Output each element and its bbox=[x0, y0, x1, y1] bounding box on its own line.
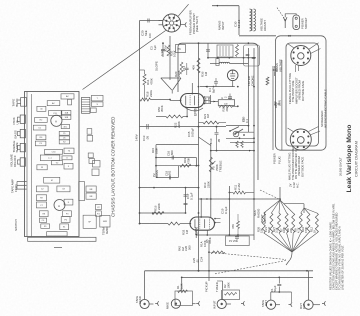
switch hub bbox=[233, 131, 239, 137]
resistor R16 bbox=[152, 212, 164, 215]
resistor R52 bbox=[166, 115, 183, 118]
vol box P1 bbox=[226, 236, 250, 246]
svg-text:A: A bbox=[58, 204, 60, 208]
svg-text:22K: 22K bbox=[289, 228, 293, 233]
layout part strip bbox=[68, 99, 72, 105]
junction dots rail bbox=[198, 42, 200, 44]
wires bank converge bbox=[264, 233, 292, 252]
wire psu top bus bbox=[208, 57, 256, 59]
layout part M7 bbox=[39, 211, 48, 217]
layout part can bbox=[100, 216, 110, 228]
svg-text:SOCKET: SOCKET bbox=[304, 17, 308, 29]
dashed leader bbox=[277, 8, 286, 21]
svg-text:UP: UP bbox=[15, 120, 19, 124]
layout part T4 bbox=[64, 148, 74, 154]
svg-text:HEAD: HEAD bbox=[15, 98, 19, 107]
capacitor C7 bbox=[206, 50, 210, 51]
layout part tag1 bbox=[91, 95, 103, 101]
wire fan rail bbox=[279, 187, 281, 200]
layout part R2 bbox=[35, 117, 48, 122]
layout part R6 bbox=[36, 135, 46, 140]
svg-text:600: 600 bbox=[170, 150, 174, 155]
svg-text:220K: 220K bbox=[177, 121, 181, 128]
wire jack1 drop bbox=[144, 271, 146, 300]
capacitor C10 bbox=[215, 133, 219, 134]
svg-text:R2: R2 bbox=[223, 284, 227, 288]
layout part E1 bbox=[35, 141, 46, 146]
wire psu v208 bbox=[207, 43, 209, 58]
layout part pair 10B bbox=[62, 115, 71, 119]
svg-text:PLUG: PLUG bbox=[277, 156, 281, 164]
svg-text:| = |: | = | bbox=[48, 158, 52, 160]
wire bus y213 bbox=[140, 212, 186, 214]
layout part A4 bbox=[87, 136, 93, 142]
chassis layout outline bbox=[25, 92, 80, 237]
svg-text:8µF: 8µF bbox=[211, 88, 215, 93]
svg-text:CHOKE: CHOKE bbox=[250, 76, 254, 86]
svg-text:ADJUST: ADJUST bbox=[263, 20, 267, 31]
wire psu v163 bbox=[162, 43, 164, 57]
wire left rail bbox=[139, 21, 141, 223]
jack J3 pickup bbox=[217, 299, 226, 308]
wire psu mid bus bbox=[200, 86, 235, 88]
svg-text:TUNER: TUNER bbox=[215, 282, 219, 292]
layout part B10 bbox=[83, 215, 96, 228]
layout part R-blk bbox=[37, 106, 46, 111]
layout part M12 bbox=[60, 224, 69, 230]
svg-text:CHASSIS LAYOUT, BOTTOM COVER R: CHASSIS LAYOUT, BOTTOM COVER REMOVED bbox=[111, 116, 116, 217]
svg-text:0.1: 0.1 bbox=[245, 119, 249, 123]
wire r17 to envelope bbox=[180, 223, 190, 225]
tube V1 envelope bbox=[181, 94, 205, 108]
wire stub V1 left b bbox=[159, 24, 163, 26]
capacitor C13 bbox=[147, 124, 148, 129]
svg-text:.002: .002 bbox=[168, 170, 172, 176]
wire treble diag bbox=[199, 137, 211, 146]
wire jack5 drop bbox=[308, 271, 310, 300]
svg-text:.05: .05 bbox=[217, 139, 221, 143]
wire top bus drop bbox=[238, 6, 240, 35]
svg-text:100K: 100K bbox=[227, 282, 231, 289]
wire treble rail bbox=[210, 143, 212, 217]
svg-text:C10: C10 bbox=[209, 138, 213, 144]
svg-text:0.05µF: 0.05µF bbox=[191, 128, 195, 137]
svg-text:OUT: OUT bbox=[264, 300, 268, 306]
connector panel inner bbox=[286, 43, 319, 146]
dashed leader S1 bbox=[260, 190, 281, 200]
svg-text:P6: P6 bbox=[178, 47, 182, 51]
layout part A6 bbox=[89, 159, 95, 164]
layout part M11 bbox=[41, 224, 50, 228]
svg-text:EF86: EF86 bbox=[194, 108, 198, 116]
electrolytic block bbox=[218, 100, 234, 106]
heater arc V1 bbox=[185, 108, 203, 111]
wire envelope1 to rail bbox=[210, 101, 218, 103]
layout part M2 bbox=[36, 186, 48, 192]
svg-text:R42: R42 bbox=[177, 246, 181, 251]
layout part C31 bbox=[49, 111, 62, 116]
svg-text:1K: 1K bbox=[313, 229, 317, 233]
wire stub V1 right bbox=[181, 24, 186, 26]
resistor R40 bbox=[266, 77, 269, 85]
svg-text:POWER: POWER bbox=[273, 153, 277, 164]
plug symbol J3 bbox=[241, 301, 245, 305]
svg-text:W: W bbox=[41, 167, 43, 169]
svg-text:470K: 470K bbox=[150, 78, 154, 85]
svg-text:100K: 100K bbox=[203, 240, 207, 247]
funnel wires bbox=[161, 78, 172, 90]
layout part M1 bbox=[44, 177, 60, 183]
layout part A3 bbox=[87, 129, 92, 135]
svg-text:A.C.: A.C. bbox=[295, 182, 299, 188]
dashed gang leader 1 bbox=[212, 253, 286, 260]
svg-text:BASS: BASS bbox=[13, 130, 17, 138]
svg-text:MIKE: MIKE bbox=[166, 302, 170, 309]
dashed gang leader 2 bbox=[215, 261, 286, 274]
bass branch 2 bbox=[156, 165, 199, 167]
svg-text:220K: 220K bbox=[157, 203, 161, 210]
layout part B7 bbox=[79, 182, 85, 201]
svg-text:INPUT: INPUT bbox=[212, 300, 216, 309]
wire mid h1 bbox=[140, 126, 161, 128]
wire mid h1b bbox=[160, 126, 226, 128]
wire v229 bbox=[228, 186, 230, 235]
input socket plate bbox=[21, 98, 27, 107]
junction dots psu bbox=[217, 57, 219, 59]
wire r52 bbox=[156, 116, 166, 118]
layout part 40C bbox=[61, 124, 69, 128]
svg-text:P1 VOL: P1 VOL bbox=[229, 240, 238, 243]
wire r11 bbox=[229, 192, 233, 194]
layout part W1 bbox=[37, 165, 47, 170]
svg-text:C26: C26 bbox=[184, 246, 188, 251]
svg-text:A: A bbox=[55, 119, 57, 123]
wire bus y223 bbox=[141, 223, 168, 225]
svg-text:0.1µF: 0.1µF bbox=[189, 192, 193, 200]
capacitor C22 bbox=[273, 69, 277, 70]
svg-text:OUTSIDE FACE: OUTSIDE FACE bbox=[301, 81, 305, 101]
layout part M5 bbox=[36, 202, 46, 208]
knob P1 VOLUME bbox=[20, 158, 25, 166]
capacitor C17 bbox=[184, 195, 188, 196]
wires fan out bbox=[264, 200, 280, 213]
arrow on mains link bbox=[288, 35, 290, 37]
layout part M13 bbox=[47, 232, 68, 236]
svg-text:.01: .01 bbox=[195, 259, 199, 263]
capacitor C11 bbox=[229, 94, 231, 97]
resistor R30 bbox=[219, 105, 233, 107]
svg-text:240: 240 bbox=[225, 106, 229, 111]
plug symbol J4 bbox=[289, 302, 293, 306]
transformer T1 core bbox=[217, 45, 233, 57]
wire psu frame bbox=[178, 43, 258, 180]
svg-text:1µF: 1µF bbox=[153, 45, 157, 50]
svg-text:FEED: FEED bbox=[14, 184, 18, 192]
tube V2 envelope bbox=[190, 217, 215, 230]
voltage selector socket bbox=[285, 14, 296, 17]
mains transformer T2 bbox=[250, 9, 252, 31]
svg-text:C24: C24 bbox=[200, 256, 204, 262]
resistor R11 bbox=[233, 191, 246, 194]
svg-text:CIRCUIT DIAGRAM: CIRCUIT DIAGRAM bbox=[353, 141, 358, 177]
wire jack2 drop bbox=[181, 277, 183, 291]
svg-text:(SEE TEXT): (SEE TEXT) bbox=[195, 16, 199, 32]
wire bus y199 bbox=[199, 198, 281, 200]
svg-text:16+16: 16+16 bbox=[237, 19, 241, 28]
envelope1 bottom wires bbox=[186, 108, 188, 117]
layout part M9 bbox=[39, 218, 46, 222]
svg-text:AC: AC bbox=[52, 102, 55, 105]
resistor R21 bbox=[203, 121, 219, 124]
layout part X2 bbox=[96, 204, 102, 209]
svg-text:C16: C16 bbox=[167, 151, 171, 156]
connector panel outer bbox=[276, 36, 327, 150]
plug symbol J1 bbox=[155, 301, 159, 305]
svg-text:SLOPE: SLOPE bbox=[15, 142, 19, 152]
knob P4 SLOPE bbox=[20, 143, 25, 151]
plug diagram upper bbox=[291, 46, 311, 66]
capacitor C4 bbox=[214, 82, 218, 83]
wire r18 bbox=[151, 99, 171, 101]
svg-text:3.3K: 3.3K bbox=[179, 283, 183, 289]
layout part B8 bbox=[86, 186, 96, 192]
wire fan h bbox=[284, 203, 304, 205]
svg-text:470K: 470K bbox=[186, 157, 190, 164]
wire bottom bus bbox=[145, 270, 313, 272]
layout part tag3 bbox=[90, 108, 96, 113]
layout part S2 bbox=[59, 140, 69, 144]
jack J4 tape out bbox=[266, 300, 275, 309]
layout tube V1 circle bbox=[51, 115, 62, 126]
layout part C30 bbox=[45, 150, 63, 155]
resistor R14 bbox=[143, 74, 146, 85]
svg-text:47K: 47K bbox=[231, 224, 235, 229]
layout part A5 bbox=[88, 153, 93, 158]
svg-text:M: M bbox=[51, 180, 53, 182]
svg-text:40V: 40V bbox=[191, 65, 195, 70]
svg-text:100K: 100K bbox=[282, 226, 286, 233]
leader plug upper a bbox=[309, 43, 319, 50]
layout part T1 bbox=[47, 101, 60, 106]
layout part M4 bbox=[36, 195, 46, 201]
layout part X1 bbox=[64, 163, 73, 169]
wire envelope1 left stub bbox=[170, 99, 181, 101]
layout part tag2 bbox=[91, 102, 103, 107]
svg-text:470K: 470K bbox=[304, 226, 308, 233]
resistor R17 bbox=[168, 222, 180, 225]
layout extra rect b bbox=[92, 169, 99, 176]
knob P5 TREBLE bbox=[20, 129, 25, 137]
wire ground drop bbox=[286, 252, 292, 265]
junction dots extra bbox=[216, 126, 218, 128]
wire slope bus bbox=[161, 77, 181, 79]
capacitor C30a bbox=[246, 54, 250, 55]
resistor R18 bbox=[140, 98, 151, 101]
jack J2 mike bbox=[171, 299, 180, 308]
wire funnel left bbox=[169, 36, 171, 80]
wire mains link bbox=[239, 35, 276, 37]
leader plug lower a bbox=[309, 127, 319, 132]
svg-text:HEAD: HEAD bbox=[138, 296, 142, 304]
svg-text:0.1µF: 0.1µF bbox=[224, 206, 228, 214]
svg-text:100: 100 bbox=[148, 33, 152, 38]
resistor R37 bbox=[236, 45, 239, 57]
svg-text:AC: AC bbox=[66, 95, 69, 98]
svg-text:4MFD: 4MFD bbox=[105, 227, 109, 234]
switch dots bbox=[248, 125, 250, 127]
wire envelope1 top bbox=[191, 83, 193, 94]
capacitor C6 bbox=[161, 49, 165, 50]
svg-text:220K: 220K bbox=[206, 181, 210, 188]
bass branch 1 bbox=[156, 157, 196, 159]
resistor bank R26 C21 R27 R7 R8 R9 R10 bbox=[262, 213, 265, 233]
resistor R38 bbox=[211, 251, 225, 254]
wire top bus bbox=[212, 5, 239, 7]
chassis rear apron bar bbox=[28, 237, 96, 241]
resistor R20 bbox=[180, 62, 183, 74]
switch S1 wires bbox=[226, 125, 248, 127]
svg-text:OUTSIDE FACE: OUTSIDE FACE bbox=[300, 157, 304, 177]
layout part N3 bbox=[61, 94, 74, 99]
wire B+ rail 1 bbox=[247, 48, 249, 132]
svg-text:BASS: BASS bbox=[155, 170, 159, 178]
mike screen box bbox=[175, 291, 192, 306]
plug symbol J5 bbox=[322, 301, 326, 305]
jack stubs bbox=[149, 303, 153, 305]
jack J1 tape head bbox=[140, 299, 149, 308]
layout terminal strip bbox=[82, 97, 90, 113]
resistor R35 bbox=[167, 45, 170, 56]
svg-text:PICKUP: PICKUP bbox=[205, 281, 209, 292]
layout part pair B2 bbox=[59, 136, 69, 140]
capacitor C1 bbox=[278, 277, 280, 283]
capacitor C30b bbox=[252, 57, 256, 58]
svg-text:2.2M: 2.2M bbox=[237, 183, 241, 190]
wire mid v2 bbox=[155, 145, 157, 178]
svg-text:SLOPE: SLOPE bbox=[154, 61, 158, 71]
wire r14 stub bbox=[144, 85, 146, 100]
svg-text:50µF: 50µF bbox=[267, 226, 271, 233]
wire screen rail bbox=[198, 43, 200, 271]
svg-text:100K: 100K bbox=[173, 50, 177, 57]
svg-text:20,000 Ω/VOLT: 20,000 Ω/VOLT bbox=[338, 157, 342, 176]
svg-text:ON-OFF: ON-OFF bbox=[13, 155, 17, 167]
svg-text:R15: R15 bbox=[151, 148, 155, 153]
svg-text:PUT: PUT bbox=[302, 303, 306, 309]
svg-text:.05: .05 bbox=[145, 136, 149, 140]
svg-text:1M: 1M bbox=[204, 71, 208, 76]
capacitor C14 bbox=[185, 68, 189, 69]
layout part pair 10A bbox=[62, 111, 71, 115]
svg-text:40C: 40C bbox=[63, 126, 67, 128]
bass branch 3 bbox=[156, 177, 178, 179]
svg-text:350K: 350K bbox=[160, 105, 164, 112]
svg-text:1M: 1M bbox=[206, 113, 210, 118]
leader plug lower b bbox=[310, 131, 320, 135]
svg-text:LINE METER OF 20,000 Ω PER VOL: LINE METER OF 20,000 Ω PER VOLT. bbox=[341, 245, 345, 290]
wire top feed bbox=[140, 20, 163, 22]
layout part U1 bbox=[62, 156, 72, 160]
layout part M8 bbox=[63, 211, 72, 217]
capacitor C23 bbox=[235, 237, 239, 238]
fuse box P6 bbox=[176, 45, 186, 53]
wire bus y235 bbox=[196, 234, 254, 236]
layout part M10 bbox=[61, 217, 70, 223]
wire treble h bbox=[211, 150, 254, 152]
wire mid h2 bbox=[156, 144, 199, 146]
envelope2 bottom wires bbox=[195, 230, 197, 238]
svg-text:4MF: 4MF bbox=[103, 221, 108, 223]
layout part pair B1 bbox=[59, 131, 69, 135]
capacitor C20 on top feed bbox=[148, 19, 149, 23]
svg-text:10A: 10A bbox=[64, 111, 68, 114]
svg-text:TREBLE: TREBLE bbox=[218, 161, 222, 172]
svg-text:INTERCONNECTING CABLE: INTERCONNECTING CABLE bbox=[323, 89, 327, 128]
resistor R36 bbox=[197, 58, 200, 73]
svg-text:220A: 220A bbox=[149, 90, 153, 97]
svg-text:1M: 1M bbox=[185, 229, 189, 234]
resistor R4 bbox=[237, 221, 240, 229]
layout part bar bbox=[40, 155, 60, 161]
svg-text:4.7K: 4.7K bbox=[296, 227, 300, 233]
wire B+ rail 2 bbox=[253, 48, 255, 240]
svg-text:Ω: Ω bbox=[277, 103, 281, 105]
svg-text:100K: 100K bbox=[155, 147, 159, 154]
resistor bank a bbox=[236, 141, 238, 148]
leader plug upper b bbox=[311, 49, 321, 54]
wire envelope2 top bbox=[200, 199, 202, 217]
can C30 outline bbox=[244, 45, 260, 66]
svg-text:SWITCH: SWITCH bbox=[14, 219, 18, 231]
tube base V1 bbox=[163, 14, 181, 32]
wire bottom bus 2 bbox=[182, 276, 313, 278]
layout part M6 bbox=[64, 199, 73, 205]
svg-text:15K: 15K bbox=[259, 228, 263, 233]
resistor R1 bbox=[178, 290, 188, 293]
svg-text:INPUT: INPUT bbox=[221, 21, 225, 30]
wire rectifier drop bbox=[232, 81, 234, 87]
leader from V1 up bbox=[178, 4, 188, 16]
knob P2 BASS bbox=[20, 115, 25, 123]
pot P5 treble bbox=[209, 157, 212, 172]
svg-text:300V: 300V bbox=[164, 45, 168, 52]
terminal pins bbox=[17, 181, 27, 183]
envelope1 right pins bbox=[204, 96, 206, 98]
svg-text:10B: 10B bbox=[64, 117, 68, 119]
wire jack4 circuit bbox=[270, 292, 272, 300]
layout tube V2 circle bbox=[54, 200, 65, 211]
svg-text:EF86: EF86 bbox=[194, 227, 198, 235]
plug diagram lower bbox=[290, 129, 311, 150]
wire v185 bbox=[185, 188, 187, 213]
svg-text:3.3K: 3.3K bbox=[275, 227, 279, 233]
layout part V2 bbox=[51, 161, 62, 165]
jack J5 output bbox=[304, 300, 313, 309]
layout extra rect a bbox=[93, 161, 101, 168]
rectifier V4 circle bbox=[227, 70, 238, 81]
wire vol rail bbox=[208, 240, 210, 281]
layout part C5 bbox=[33, 125, 46, 130]
wire stub V1 left a bbox=[159, 20, 163, 22]
layout part M3 bbox=[57, 186, 70, 192]
layout part F4 bbox=[96, 211, 102, 216]
wire jack3 circuit bbox=[221, 290, 223, 300]
leader from V1 down bbox=[83, 30, 166, 89]
envelope2 right pins bbox=[214, 218, 216, 220]
svg-text:500: 500 bbox=[188, 245, 192, 250]
svg-text:Leak Varislope Mono: Leak Varislope Mono bbox=[346, 125, 353, 193]
svg-text:SWITCH: SWITCH bbox=[263, 212, 267, 224]
